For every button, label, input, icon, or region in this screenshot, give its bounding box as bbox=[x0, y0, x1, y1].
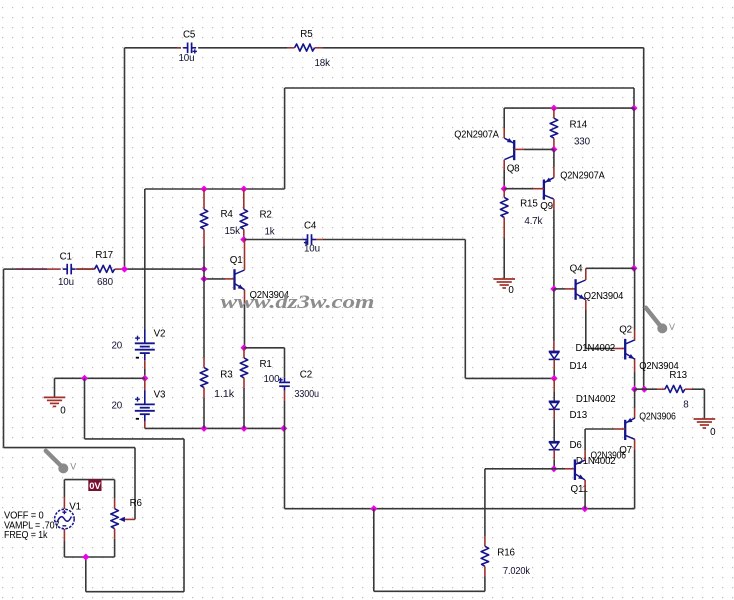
wire R3 feed x=204 bbox=[203, 269, 205, 357]
wire y=438.9 bbox=[85, 438, 185, 440]
voltage source V2 battery bbox=[135, 329, 155, 360]
node dot R1 bottom bbox=[240, 425, 247, 432]
node dot bias node C4 bbox=[551, 375, 558, 382]
wire red lead C4 right bbox=[316, 239, 323, 241]
wire red leads R17 bbox=[76, 268, 94, 270]
label ground 0 left bbox=[60, 406, 66, 417]
wire C4 left y=239.5 bbox=[244, 239, 303, 241]
wire Q7 base y=429 bbox=[585, 428, 625, 430]
svg-text:10u: 10u bbox=[304, 244, 320, 255]
label R6 bbox=[130, 498, 143, 509]
wire red lead V3 top bbox=[144, 378, 146, 390]
label R17 bbox=[95, 250, 113, 261]
svg-text:C4: C4 bbox=[304, 221, 317, 232]
label V1 VAMPL bbox=[4, 520, 59, 531]
wire R13 to ground corner bbox=[692, 389, 704, 419]
svg-text:R15: R15 bbox=[520, 198, 538, 209]
svg-text:C1: C1 bbox=[60, 252, 72, 263]
wire Q7 emitter lead bbox=[634, 389, 636, 418]
svg-text:3300u: 3300u bbox=[294, 389, 319, 400]
resistor R4 bbox=[200, 209, 208, 229]
wire Q9 collector lead bbox=[553, 199, 555, 289]
wire to diode chain y=378.4 bbox=[465, 377, 554, 379]
node dot R4 top bbox=[200, 185, 207, 192]
wire rail y=189 bbox=[145, 188, 285, 190]
wire red lead R3 top bbox=[203, 358, 205, 368]
svg-text:Q1: Q1 bbox=[230, 255, 243, 266]
label Q7 type Q2N3906 bbox=[639, 412, 676, 423]
label C5 value 10u bbox=[179, 53, 195, 64]
label R16 value 7.020k bbox=[503, 566, 530, 577]
resistor R6 bbox=[111, 509, 119, 529]
wire V2 to V3 bbox=[144, 369, 146, 378]
node dot ground branch bbox=[81, 375, 88, 382]
svg-text:FREQ = 1k: FREQ = 1k bbox=[4, 530, 48, 541]
node dot Q1 emitter R1 top bbox=[240, 344, 247, 351]
svg-text:V: V bbox=[70, 461, 76, 471]
label Q9 bbox=[540, 201, 553, 212]
wire red lead C2 bottom bbox=[284, 391, 286, 401]
svg-text:Q8: Q8 bbox=[507, 163, 520, 174]
resistor R5 bbox=[295, 44, 315, 51]
wire D14 bottom lead bbox=[553, 359, 555, 378]
wire R16 vertical upper bbox=[484, 469, 486, 547]
label R3 bbox=[220, 370, 233, 381]
transistor Q1 bbox=[235, 269, 245, 290]
node dot R14 top bbox=[550, 105, 557, 112]
label R16 bbox=[497, 548, 515, 559]
svg-text:Q2N2907A: Q2N2907A bbox=[454, 130, 499, 141]
wire D13 top lead bbox=[553, 378, 555, 401]
svg-text:R14: R14 bbox=[570, 120, 588, 131]
svg-text:D1N4002: D1N4002 bbox=[576, 394, 616, 405]
label C1 value 10u bbox=[58, 277, 74, 288]
R6 wiper arrow bbox=[120, 517, 125, 521]
resistor R16 bbox=[481, 546, 489, 566]
wire red lead R2 bottom bbox=[243, 229, 245, 239]
wire red lead R3 bottom bbox=[203, 388, 205, 398]
label R2 value 1k bbox=[265, 226, 275, 237]
svg-text:V: V bbox=[669, 322, 675, 332]
transistor Q7 PNP bbox=[625, 418, 635, 440]
label R5 value 18k bbox=[315, 58, 331, 69]
label R15 value 4.7k bbox=[524, 216, 542, 227]
wire C2 top vertical bbox=[284, 348, 286, 378]
node dot R3 bottom bbox=[200, 425, 207, 432]
svg-text:0: 0 bbox=[60, 406, 66, 417]
wire Q4 collector y=268.3 bbox=[586, 267, 634, 269]
resistor R14 bbox=[550, 118, 558, 138]
svg-text:20: 20 bbox=[112, 401, 123, 412]
label Q4 bbox=[570, 264, 583, 275]
wire R4 to input node bbox=[203, 246, 205, 269]
resistor R17 bbox=[95, 265, 115, 272]
wire to R6 wiper horizontal y=447.6 bbox=[4, 447, 136, 449]
label Q11 type Q2N3906 bbox=[591, 451, 627, 462]
wire red lead R14 bottom bbox=[553, 138, 555, 149]
svg-text:Q2N2907A: Q2N2907A bbox=[560, 170, 605, 181]
label C5 bbox=[183, 30, 196, 41]
wire x=284.5 down to bottom rail bbox=[284, 428, 286, 508]
label Q1 type Q2N3904 bbox=[250, 290, 290, 301]
resistor R13 bbox=[665, 385, 685, 392]
label R17 value 680 bbox=[97, 277, 114, 288]
svg-text:330: 330 bbox=[574, 137, 591, 148]
svg-text:100: 100 bbox=[264, 374, 281, 385]
svg-text:V1: V1 bbox=[69, 502, 81, 513]
wire red lead R6 bottom bbox=[114, 529, 116, 557]
label V1 VOFF bbox=[4, 511, 44, 522]
ground symbol 0 middle bbox=[493, 279, 515, 288]
svg-text:R17: R17 bbox=[95, 250, 113, 261]
node dot Q4-Q2 collector junction bbox=[630, 265, 637, 272]
label Q8 type Q2N2907A bbox=[454, 130, 499, 141]
svg-text:1k: 1k bbox=[265, 226, 275, 237]
svg-text:R13: R13 bbox=[669, 370, 687, 381]
wire rail y=88 bbox=[285, 87, 634, 89]
resistor R15 bbox=[500, 197, 508, 217]
wire output y=389.2 bbox=[635, 388, 665, 390]
svg-text:R1: R1 bbox=[260, 359, 272, 370]
diode D14 bbox=[549, 351, 560, 359]
svg-text:0: 0 bbox=[710, 427, 716, 438]
label R4 value 15k bbox=[225, 226, 241, 237]
svg-text:R5: R5 bbox=[300, 29, 313, 40]
label R3 value 1.1k bbox=[214, 389, 234, 400]
svg-text:R16: R16 bbox=[497, 548, 515, 559]
transistor Q11 bbox=[575, 459, 585, 480]
wire red lead R14 top bbox=[553, 108, 555, 118]
wire V2 top from rail bbox=[144, 189, 146, 329]
wire red lead R15 bottom bbox=[503, 217, 505, 237]
resistor R3 bbox=[200, 368, 208, 388]
svg-text:Q2N3904: Q2N3904 bbox=[584, 291, 624, 302]
wire Q1 base y=278.9 bbox=[204, 278, 233, 280]
wire Q9 base y=188.7 bbox=[504, 188, 544, 190]
node dot supply midpoint bbox=[141, 375, 148, 382]
label Q9 type Q2N2907A bbox=[560, 170, 605, 181]
wire x=634 down to Q4 collector node bbox=[633, 108, 635, 268]
node dot R14 bottom Q8 base bbox=[550, 146, 557, 153]
label R14 bbox=[570, 120, 588, 131]
wire rail vertical x=284.6 bbox=[284, 88, 286, 189]
svg-text:D14: D14 bbox=[570, 361, 588, 372]
wire C4 right to corner bbox=[323, 239, 465, 241]
svg-text:7.020k: 7.020k bbox=[503, 566, 530, 577]
wire red lead R6 top bbox=[114, 480, 116, 509]
wire x=634 from y=88 to dot bbox=[633, 88, 635, 108]
wire Q2 collector lead bbox=[634, 268, 636, 340]
svg-text:www.dz3w.com: www.dz3w.com bbox=[221, 291, 375, 313]
wire red lead C5 left bbox=[177, 47, 181, 49]
wire red leads R5 bbox=[287, 47, 322, 49]
wire left edge vertical x=4 bbox=[3, 269, 5, 448]
label R15 bbox=[520, 198, 538, 209]
label Q7 bbox=[619, 445, 632, 456]
label V3 value 20 bbox=[112, 401, 123, 412]
viewpoint 0V badge bbox=[88, 479, 101, 492]
wire y=108 rail bbox=[504, 107, 634, 109]
label Q1 bbox=[230, 255, 243, 266]
wire Q4 base y=288.9 bbox=[554, 288, 575, 290]
wire red lead R4 top bbox=[203, 189, 205, 209]
wire red lead V3 bottom bbox=[144, 421, 146, 428]
label R5 bbox=[300, 29, 313, 40]
wire input y=269 bbox=[4, 268, 205, 270]
svg-text:Q4: Q4 bbox=[570, 264, 583, 275]
label V1 bbox=[69, 502, 81, 513]
wire red lead Q4 collector bbox=[585, 268, 587, 280]
wire x=85.8 up to V1 bottom bbox=[85, 557, 87, 592]
capacitor C1 bbox=[63, 264, 76, 275]
wire red lead R4 bottom bbox=[203, 229, 205, 246]
wire R16 bottom to rail bbox=[374, 509, 485, 592]
transistor Q4 bbox=[576, 279, 586, 300]
svg-text:20: 20 bbox=[112, 341, 123, 352]
svg-text:R2: R2 bbox=[260, 209, 272, 220]
label D14 bbox=[570, 361, 588, 372]
ground symbol 0 left bbox=[44, 397, 66, 406]
wire Q11 base y=468.8 bbox=[554, 468, 574, 470]
label Q8 bbox=[507, 163, 520, 174]
node dot 634-108 bbox=[630, 105, 637, 112]
node dot output rail bbox=[641, 386, 648, 393]
label V3 bbox=[154, 390, 166, 401]
svg-text:C2: C2 bbox=[300, 370, 312, 381]
svg-text:Q2: Q2 bbox=[619, 324, 632, 335]
wire Q8 emitter from rail bbox=[503, 108, 505, 138]
wire red lead R16 bottom bbox=[484, 567, 486, 577]
label R2 bbox=[260, 209, 272, 220]
resistor R1 bbox=[240, 358, 248, 378]
svg-text:18k: 18k bbox=[315, 58, 331, 69]
wire Q7 collector lead bbox=[634, 439, 636, 508]
wire bottom rail y=508.7 bbox=[285, 508, 635, 510]
wire R6 wiper bbox=[124, 518, 135, 520]
source V1 sine bbox=[55, 509, 75, 529]
node dot output Q2 emitter bbox=[631, 386, 638, 393]
label C2 value 3300u bbox=[294, 389, 319, 400]
label R1 value 100 bbox=[264, 374, 281, 385]
label D6 bbox=[570, 440, 583, 451]
label ground 0 middle bbox=[508, 285, 514, 296]
node dot Q1 base junction bbox=[200, 275, 207, 282]
label V2 bbox=[154, 329, 166, 340]
label Q2 bbox=[619, 324, 632, 335]
node dot C2 bottom bbox=[280, 425, 287, 432]
wire ground branch y=378.3 bbox=[55, 377, 145, 379]
wire ground stem x=54.5 bbox=[54, 378, 56, 397]
wire Q4 emitter down bbox=[585, 310, 587, 349]
capacitor C4 bbox=[303, 234, 316, 245]
wire red lead R15 top bbox=[503, 189, 505, 198]
node dot Q8 collector R15 Q9 base bbox=[501, 185, 508, 192]
resistor R2 bbox=[240, 209, 248, 229]
capacitor C5 bbox=[183, 43, 197, 54]
label R1 bbox=[260, 359, 272, 370]
probe V marker lower-left bbox=[46, 451, 76, 474]
svg-text:Q2N3906: Q2N3906 bbox=[591, 451, 627, 462]
wire top rail y=48 bbox=[125, 47, 644, 49]
label Q11 bbox=[571, 484, 588, 495]
wire V1 loop bottom y=557 bbox=[64, 556, 114, 558]
probe V marker output bbox=[646, 308, 675, 334]
node dot R2 top bbox=[240, 185, 247, 192]
wire red lead Q1 collector bbox=[244, 240, 246, 271]
svg-text:Q9: Q9 bbox=[540, 201, 553, 212]
node dot input-feedback junction bbox=[121, 266, 128, 273]
label V2 value 20 bbox=[112, 341, 123, 352]
wire to R6 wiper vertical x=135 bbox=[134, 448, 136, 520]
wire Q11 emitter lead bbox=[584, 480, 586, 509]
svg-text:680: 680 bbox=[97, 277, 114, 288]
svg-text:D13: D13 bbox=[570, 410, 588, 421]
node dot input end at R4-R3 bbox=[200, 266, 207, 273]
wire red lead R2 top bbox=[243, 189, 245, 209]
svg-text:0: 0 bbox=[508, 285, 514, 296]
wire R3 bottom bbox=[203, 398, 205, 429]
node dot R16 branch bbox=[370, 505, 377, 512]
wire Q2 emitter lead bbox=[634, 360, 636, 390]
wire Q8 collector lead bbox=[503, 160, 505, 189]
label D13 bbox=[570, 410, 588, 421]
transistor Q9 PNP bbox=[544, 178, 554, 200]
node dot V1 bottom bbox=[82, 553, 89, 560]
ground symbol 0 right bbox=[694, 419, 716, 428]
svg-text:V2: V2 bbox=[154, 329, 166, 340]
svg-text:V3: V3 bbox=[154, 390, 166, 401]
label R13 value 8 bbox=[683, 400, 689, 411]
label R13 bbox=[669, 370, 687, 381]
wire C2 bottom bbox=[284, 401, 286, 428]
wire C4 vertical x=465.3 bbox=[464, 240, 466, 379]
svg-text:D1N4002: D1N4002 bbox=[576, 343, 616, 354]
node dot Q11 emitter junction bbox=[581, 505, 588, 512]
label V1 FREQ bbox=[4, 530, 48, 541]
capacitor C2 polarized bbox=[279, 378, 291, 391]
wire x=84.5 down bbox=[84, 378, 86, 439]
svg-text:10u: 10u bbox=[58, 277, 74, 288]
voltage source V3 battery bbox=[135, 390, 155, 421]
wire rail y=428.4 bbox=[145, 427, 284, 429]
wire left vertical x=124.5 bbox=[124, 48, 126, 269]
node dot Q9 collector Q4 base D14 bbox=[550, 285, 557, 292]
svg-text:8: 8 bbox=[683, 400, 689, 411]
svg-text:4.7k: 4.7k bbox=[524, 216, 542, 227]
wire R16 top y=468.8 bbox=[485, 468, 554, 470]
wire D14 top lead bbox=[553, 289, 555, 352]
label C2 bbox=[300, 370, 312, 381]
svg-text:R4: R4 bbox=[221, 209, 234, 220]
svg-text:R6: R6 bbox=[130, 498, 143, 509]
svg-text:0V: 0V bbox=[89, 481, 101, 492]
label C1 bbox=[60, 252, 72, 263]
label R14 value 330 bbox=[574, 137, 591, 148]
wire red lead R1 top bbox=[243, 348, 245, 358]
label ground 0 right bbox=[710, 427, 716, 438]
wire red lead C1 left bbox=[55, 268, 61, 270]
node dot R2 bottom C4 junction bbox=[240, 236, 247, 243]
node dot D6 bottom R16 Q11 base bbox=[550, 465, 557, 472]
wire R1 bottom bbox=[243, 388, 245, 429]
label D14 type D1N4002 bbox=[576, 343, 616, 354]
svg-text:10u: 10u bbox=[179, 53, 195, 64]
svg-text:C5: C5 bbox=[183, 30, 196, 41]
wire y=591.7 left bbox=[86, 591, 184, 593]
wire V1 loop top y=479.6 bbox=[64, 479, 114, 481]
transistor Q2 bbox=[625, 339, 635, 360]
wire red lead Q1 emitter bbox=[244, 290, 246, 305]
wire Q8 base stub bbox=[514, 148, 554, 150]
svg-text:15k: 15k bbox=[225, 226, 241, 237]
diode D6 bbox=[549, 442, 560, 450]
watermark www.dz3w.com bbox=[221, 291, 375, 313]
wire red lead R1 bottom bbox=[243, 378, 245, 388]
wire V1 bottom lead bbox=[63, 529, 65, 557]
wire V1 top lead bbox=[63, 480, 65, 509]
label D13 type D1N4002 bbox=[576, 394, 616, 405]
wire red lead Q4 emitter bbox=[585, 300, 587, 310]
wire D13 bottom lead bbox=[553, 409, 555, 441]
wire red lead R17 right bbox=[115, 268, 123, 270]
wire D6 bottom lead bbox=[553, 450, 555, 469]
wire Q9 emitter lead bbox=[553, 149, 555, 177]
label R4 bbox=[221, 209, 234, 220]
svg-text:R3: R3 bbox=[220, 370, 233, 381]
wire Q1 emitter down bbox=[244, 305, 246, 348]
svg-text:1.1k: 1.1k bbox=[214, 389, 234, 400]
wire Q11 collector lead bbox=[584, 429, 586, 460]
label D6 type D1N4002 bbox=[576, 456, 616, 467]
wire right vertical x=644.3 bbox=[643, 48, 645, 389]
label Q2 type Q2N3904 bbox=[639, 361, 679, 372]
wire Q2 base y=348.5 bbox=[586, 348, 624, 350]
wire red lead R13 right bbox=[685, 388, 692, 390]
wire C2 top y=347.8 bbox=[244, 347, 285, 349]
wire x=184 down bbox=[183, 439, 185, 592]
label C4 value 10u bbox=[304, 244, 320, 255]
transistor Q8 PNP bbox=[504, 138, 514, 160]
diode D13 bbox=[549, 401, 560, 409]
label C4 bbox=[304, 221, 317, 232]
wire R15 to ground bbox=[503, 238, 505, 279]
svg-text:D6: D6 bbox=[570, 440, 583, 451]
svg-text:Q2N3906: Q2N3906 bbox=[639, 412, 676, 423]
wire red lead V2 bottom bbox=[144, 360, 146, 369]
label Q4 type Q2N3904 bbox=[584, 291, 624, 302]
